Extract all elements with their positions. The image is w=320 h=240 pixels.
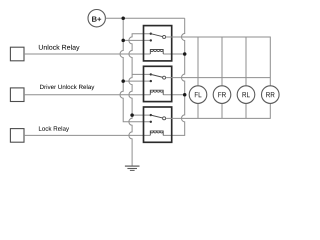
relay3 NO contact	[150, 121, 152, 123]
ground	[125, 166, 140, 170]
connector square driver unlock input	[10, 88, 24, 102]
wire motor FL top drop	[197, 37, 199, 86]
wire vertical bus B (relay arms to ground) with hops	[129, 34, 151, 166]
relay3 arm pivot	[150, 114, 152, 116]
motor FR	[213, 86, 231, 104]
label Unlock Relay	[39, 45, 80, 52]
battery terminal B+	[88, 10, 105, 27]
relay2 common contact circle	[163, 76, 166, 79]
relay1 NO contact	[150, 39, 152, 41]
wire coil2 right lead	[163, 94, 185, 96]
relay1 coil	[150, 50, 163, 55]
node arm tap box3	[130, 113, 134, 117]
relay3 switch arm	[151, 115, 163, 118]
wire coil1 right lead	[163, 53, 185, 55]
wire lock output bus	[166, 103, 270, 118]
wire motor FL bottom drop	[197, 103, 199, 118]
node NO tap box1	[121, 39, 125, 43]
relay2 arm pivot	[150, 73, 152, 75]
motor RR	[262, 86, 280, 104]
relay1 arm pivot	[150, 33, 152, 35]
node coil1 B+	[183, 52, 187, 56]
wire arm tap box2	[132, 73, 151, 75]
relay1 switch arm	[151, 34, 163, 37]
relay2 switch arm	[151, 74, 163, 77]
label Driver Unlock Relay	[40, 85, 94, 91]
node NO tap box2	[121, 79, 125, 83]
relay box 2 (driver unlock relay)	[144, 66, 172, 101]
node coil2 B+	[183, 93, 187, 97]
wire lock control row	[24, 134, 150, 136]
wire motor FR bottom drop	[221, 103, 223, 118]
motor RL	[237, 86, 255, 104]
wire driver unlock output bus	[166, 77, 270, 79]
connector square lock input	[10, 129, 24, 143]
relay box 3 (lock relay)	[144, 107, 172, 142]
wire B+ horizontal feed	[105, 17, 184, 19]
relay1 common contact circle	[163, 35, 166, 38]
wire unlock control row	[24, 53, 150, 55]
relay box 1 (unlock relay)	[144, 26, 172, 61]
wire NO contact tap box1	[123, 39, 151, 41]
wire motor RL top drop	[245, 37, 247, 86]
relay3 coil	[150, 131, 163, 136]
relay3 common contact circle	[163, 117, 166, 120]
wire vertical bus C (B+ to relay coils) with hops	[163, 18, 185, 135]
relay2 NO contact	[150, 80, 152, 82]
label Lock Relay	[39, 126, 69, 132]
wire unlock output bus	[166, 37, 270, 86]
motor FL	[189, 86, 207, 104]
wire driver unlock control row	[24, 94, 150, 96]
wire motor RL bottom drop	[245, 103, 247, 118]
wire vertical bus A (B+ to relay NO contacts) with hops	[120, 18, 151, 122]
wire motor FR top drop	[221, 37, 223, 86]
relay2 coil	[150, 90, 163, 95]
connector square unlock input	[10, 47, 24, 61]
wire arm tap box3	[132, 114, 151, 116]
wire NO contact tap box2	[123, 80, 151, 82]
node B+ tap	[121, 16, 125, 20]
